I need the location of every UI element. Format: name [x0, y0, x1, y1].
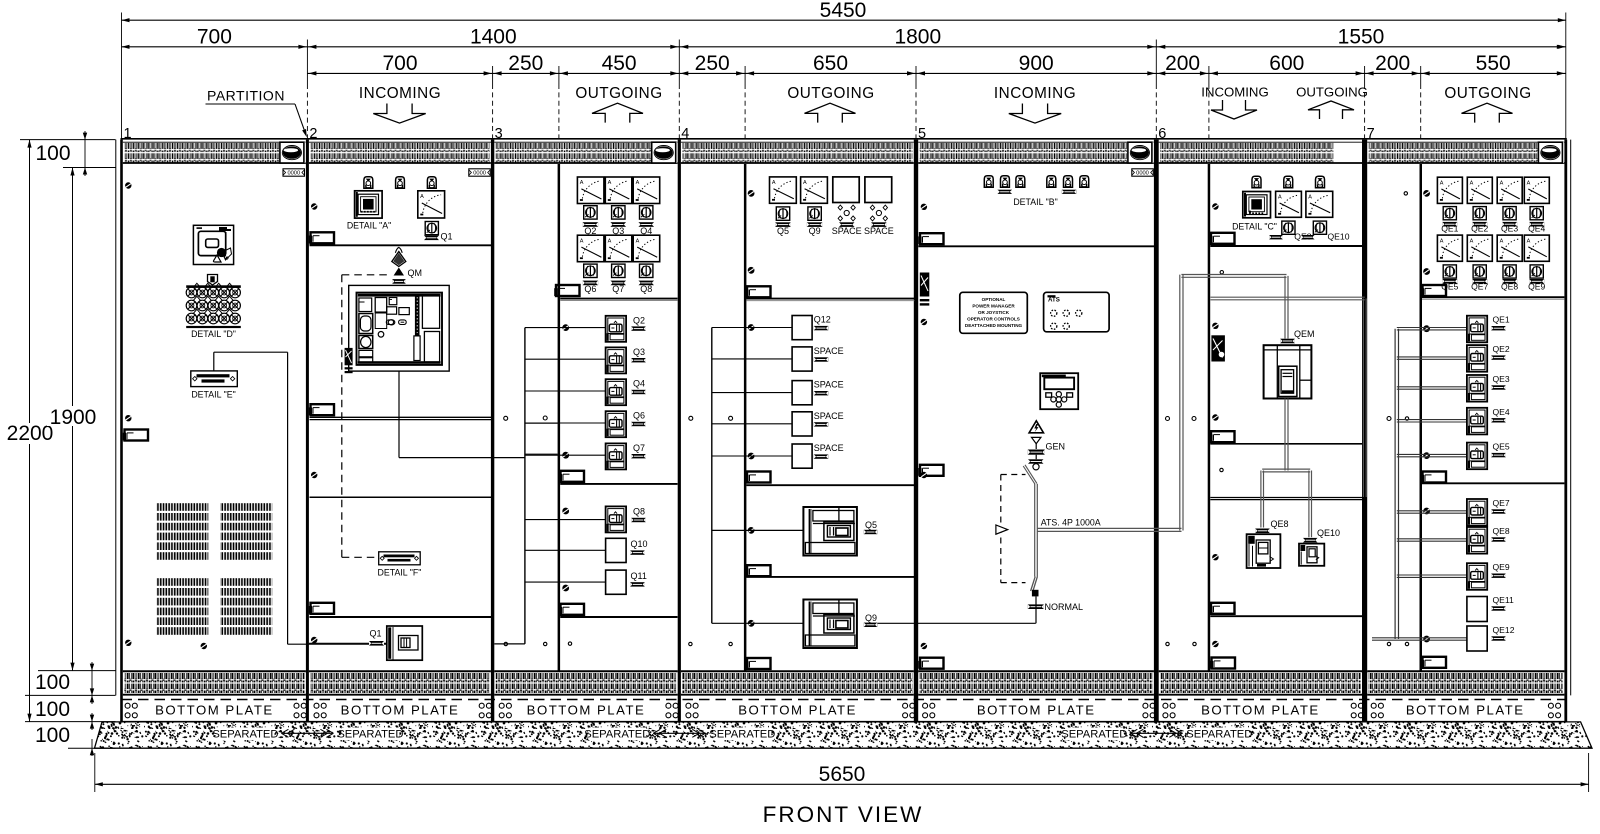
panel 2 handles [311, 232, 335, 243]
svg-text:Q8: Q8 [640, 284, 652, 294]
svg-text:1900: 1900 [50, 406, 97, 429]
svg-text:ATS. 4P 1000A: ATS. 4P 1000A [1041, 517, 1101, 527]
terminal QEM [1280, 339, 1295, 344]
wire feeder Q12 row 1 [712, 327, 792, 329]
breaker QE3 [1467, 375, 1487, 402]
wire feeder QE1 [1397, 327, 1467, 329]
top ventilation louvre section 5 [918, 141, 1154, 143]
panel 5 handles [920, 233, 944, 244]
breaker Q2 [606, 316, 627, 342]
panel wall between section 5 and 6 [1154, 140, 1159, 722]
label SEPARATED right [713, 728, 771, 741]
svg-text:Q7: Q7 [612, 284, 624, 294]
dimension 2200 left [29, 140, 31, 722]
moulded case breaker Q5 [803, 507, 857, 556]
ATS controller unit [349, 285, 450, 371]
svg-text:A: A [580, 180, 584, 186]
wire feeder QE7 [1397, 510, 1467, 512]
detail C multimeter [1243, 192, 1271, 218]
breaker QE9 [1467, 563, 1487, 590]
optional power manager nameplate [960, 292, 1028, 333]
svg-text:A: A [1278, 195, 1282, 201]
separation arrows [1130, 732, 1182, 734]
svg-text:Q12: Q12 [814, 315, 831, 325]
panel 4 door dividers [746, 298, 914, 300]
wire feeder Q3 [525, 358, 606, 360]
svg-text:A: A [636, 180, 640, 186]
svg-text:QE3: QE3 [1501, 223, 1518, 233]
panel 7 ammeter row 1 [1437, 177, 1462, 203]
breaker QE10 [1299, 544, 1324, 566]
wire feeder SPACE row 3 [712, 392, 792, 394]
svg-text:SEPARATED: SEPARATED [212, 729, 278, 741]
GEN lower terminal [1028, 459, 1044, 463]
terminal Q1 [424, 236, 439, 241]
panel 7 screws [1423, 190, 1430, 197]
motor drive symbol [996, 525, 1008, 534]
top ventilation louvre section 6 [1159, 141, 1362, 143]
wire feeder Q8 [525, 519, 606, 521]
svg-text:DETAIL "D": DETAIL "D" [191, 329, 236, 339]
wire feeder QE9 [1397, 574, 1467, 576]
space breaker Q12 row 1 [792, 316, 812, 340]
cable gland crest [208, 275, 218, 286]
panel 4 screws [748, 190, 755, 197]
panel 5 door divider [918, 245, 1154, 247]
svg-text:Q3: Q3 [633, 347, 645, 357]
svg-text:QEM: QEM [1294, 329, 1315, 339]
wire drop QE8 [1260, 471, 1262, 528]
svg-text:Q7: Q7 [633, 443, 645, 453]
svg-text:Q4: Q4 [640, 226, 652, 236]
svg-text:QE7: QE7 [1493, 498, 1510, 508]
breaker Q4 [606, 379, 627, 405]
svg-text:Q5: Q5 [865, 520, 877, 530]
svg-text:A: A [1470, 180, 1474, 186]
svg-text:OR JOYSTICK: OR JOYSTICK [978, 310, 1010, 315]
svg-text:A: A [1527, 180, 1531, 186]
panel 2 gland box [345, 348, 353, 365]
panel 2 screws [311, 203, 317, 209]
panel 5 gland box [920, 273, 930, 297]
svg-text:Q6: Q6 [584, 284, 596, 294]
rotary switch QE10 top [1313, 221, 1326, 234]
panel 4 feeder bus [711, 328, 713, 624]
dashed link GEN side [1001, 474, 1026, 476]
svg-text:BOTTOM PLATE: BOTTOM PLATE [977, 703, 1096, 718]
sub-divider wall in section 6 [1208, 164, 1211, 671]
label SEPARATED left [588, 728, 646, 741]
label SEPARATED right [1190, 728, 1248, 741]
panel 4 handles [747, 286, 771, 297]
dimension 100 base [68, 747, 116, 749]
dimension 5650 overall base [94, 753, 96, 792]
GEN terminal [1028, 450, 1045, 455]
panel wall between section 3 and 4 [678, 140, 681, 722]
breaker QE4 [1467, 408, 1487, 435]
rotary switches Q6 Q7 Q8 [584, 264, 597, 277]
svg-text:A: A [608, 238, 612, 244]
label SEPARATED right [341, 728, 399, 741]
svg-text:QE3: QE3 [1493, 374, 1510, 384]
panel 1 exhaust grilles [156, 503, 208, 511]
label SEPARATED left [1065, 728, 1123, 741]
terminal and label QE8 top [1269, 235, 1283, 239]
detail F nameplate [379, 552, 421, 565]
svg-text:200: 200 [1375, 52, 1410, 75]
switchboard outer frame [115, 140, 117, 696]
svg-text:Q11: Q11 [631, 571, 647, 581]
svg-text:SPACE: SPACE [832, 226, 862, 236]
terminals Q5 Q9 SPACE SPACE [775, 222, 791, 227]
panel 6 door dividers [1210, 245, 1362, 247]
wire feeder QE2 [1397, 356, 1467, 358]
sub-divider wall in section 4 [744, 164, 747, 671]
bottom ventilation louvre section 6 [1159, 670, 1362, 672]
panel wall 7 right edge [1564, 140, 1567, 722]
breaker QEM [1264, 345, 1312, 398]
svg-text:SPACE: SPACE [814, 411, 844, 421]
ATS control station box [1044, 292, 1110, 332]
top ventilation louvre section 2 [309, 141, 491, 143]
breaker QE5 [1467, 443, 1487, 470]
svg-text:DETAIL "B": DETAIL "B" [1013, 197, 1057, 207]
svg-text:BOTTOM PLATE: BOTTOM PLATE [1406, 703, 1525, 718]
svg-text:SEPARATED: SEPARATED [1186, 729, 1252, 741]
dimension extension lines [121, 13, 123, 140]
bottom ventilation louvre section 7 [1367, 670, 1564, 672]
svg-text:QE4: QE4 [1493, 407, 1510, 417]
rotary switches Q5 Q9 [776, 207, 789, 220]
separation arrows [281, 732, 333, 734]
bottom ventilation louvre section 2 [309, 670, 491, 672]
svg-text:2200: 2200 [7, 422, 54, 445]
svg-text:100: 100 [35, 142, 70, 165]
svg-text:QE9: QE9 [1493, 562, 1510, 572]
panel 3 handles [556, 285, 580, 296]
svg-text:SEPARATED: SEPARATED [1061, 729, 1127, 741]
svg-text:QE2: QE2 [1493, 344, 1510, 354]
space meter windows [833, 177, 859, 203]
svg-text:450: 450 [602, 52, 637, 75]
svg-text:A: A [803, 180, 807, 186]
dimension 5450 overall width [122, 19, 1566, 21]
svg-text:QE5: QE5 [1493, 442, 1510, 452]
lamp QM [392, 252, 406, 267]
svg-text:A: A [636, 238, 640, 244]
svg-text:100: 100 [35, 724, 70, 747]
label SEPARATED left [216, 728, 274, 741]
dimension 100 bottom plate [25, 721, 116, 723]
svg-text:700: 700 [382, 52, 417, 75]
svg-text:INCOMING: INCOMING [994, 85, 1076, 102]
wire ATS feed riser [1179, 275, 1181, 531]
panel 6 screws [1212, 203, 1218, 209]
wire feeder SPACE row 2 [712, 358, 792, 360]
panel 5 lamp terminals [998, 190, 1013, 194]
svg-text:Q9: Q9 [865, 613, 877, 623]
top ventilation louvre section 7 [1367, 141, 1564, 143]
panel 3 screws [562, 324, 569, 331]
svg-text:QE8: QE8 [1493, 526, 1510, 536]
svg-text:1400: 1400 [470, 26, 517, 49]
svg-text:DETAIL "F": DETAIL "F" [378, 568, 422, 578]
wire feeder QE3 [1397, 386, 1467, 388]
breaker Q8 [606, 506, 627, 532]
svg-text:SEPARATED: SEPARATED [337, 729, 403, 741]
wire normal to Q9 [1035, 596, 1037, 623]
svg-text:Q10: Q10 [631, 539, 648, 549]
wire feeder Q11 [525, 581, 606, 583]
svg-text:Q4: Q4 [633, 379, 645, 389]
dimension 100 bottom vent [38, 670, 116, 672]
svg-text:QE5: QE5 [1441, 281, 1458, 291]
svg-text:OUTGOING: OUTGOING [1296, 85, 1368, 100]
svg-text:250: 250 [508, 52, 543, 75]
terminals QE5 QE7 QE8 QE9 [1442, 279, 1457, 284]
panel 6 handles [1211, 233, 1235, 244]
svg-text:QE10: QE10 [1328, 231, 1350, 241]
svg-text:100: 100 [35, 671, 70, 694]
svg-text:200: 200 [1165, 52, 1200, 75]
bottom ventilation louvre section 1 [123, 670, 306, 672]
svg-text:Q1: Q1 [370, 629, 382, 639]
space breaker Q11 [606, 570, 627, 594]
svg-text:FRONT VIEW: FRONT VIEW [763, 802, 924, 827]
svg-text:100: 100 [35, 698, 70, 721]
space breaker QE11 [1467, 597, 1487, 622]
detail A multimeter [355, 191, 383, 218]
detail F dashed boundary [342, 274, 391, 276]
panel 2 door divider [310, 244, 492, 246]
svg-text:A: A [772, 180, 776, 186]
svg-text:OUTGOING: OUTGOING [787, 85, 874, 102]
panel 3 small dots [504, 416, 508, 420]
svg-text:DETAIL "A": DETAIL "A" [347, 221, 391, 231]
svg-text:Q2: Q2 [633, 315, 645, 325]
svg-text:SPACE: SPACE [864, 226, 894, 236]
svg-text:QE4: QE4 [1528, 223, 1545, 233]
wire drop QE10 [1308, 471, 1310, 538]
panel 4 cable-way dots [689, 416, 693, 420]
svg-text:OPTIONAL: OPTIONAL [982, 297, 1006, 302]
wire feeder QE4 [1397, 419, 1467, 421]
panel 7 handles [1423, 285, 1447, 296]
panel 5 tag 0000 [1132, 169, 1154, 176]
wire QEM output [1284, 399, 1286, 471]
svg-text:SEPARATED: SEPARATED [584, 729, 650, 741]
rotary switch Q1 [425, 222, 438, 235]
svg-text:OPERATOR CONTROLS: OPERATOR CONTROLS [967, 317, 1020, 322]
wire feeder SPACE row 5 [712, 455, 792, 457]
space selector dots [844, 210, 849, 215]
svg-text:QE8: QE8 [1501, 281, 1518, 291]
svg-text:BOTTOM PLATE: BOTTOM PLATE [738, 703, 857, 718]
moulded case breaker Q9 [803, 600, 857, 649]
space breaker Q10 [606, 538, 627, 562]
svg-text:NORMAL: NORMAL [1045, 602, 1084, 612]
svg-text:QE1: QE1 [1441, 223, 1458, 233]
ATS switch blade [1023, 466, 1035, 484]
space breaker SPACE row 4 [792, 412, 812, 436]
wire feeder Q9 breaker [712, 622, 804, 624]
svg-text:A: A [1308, 195, 1312, 201]
ATS output busbar [1037, 527, 1181, 529]
svg-text:Q1: Q1 [441, 232, 453, 242]
wire Q9 to ATS normal [878, 622, 1036, 624]
rotary switch QE8 top [1282, 221, 1295, 234]
panel 2 door dividers [310, 416, 492, 418]
svg-text:QE1: QE1 [1493, 315, 1510, 325]
svg-text:DETAIL "C": DETAIL "C" [1232, 222, 1277, 232]
svg-text:600: 600 [1269, 52, 1304, 75]
svg-text:QE11: QE11 [1493, 595, 1515, 605]
panel 6 indicator lamps [1252, 176, 1261, 187]
breaker Q6 [606, 411, 627, 437]
top ventilation louvre section 4 [681, 141, 914, 143]
svg-text:A: A [1500, 238, 1504, 244]
panel 1 door screws [125, 182, 131, 188]
wire feeder Q6 [525, 422, 606, 424]
svg-text:QE12: QE12 [1493, 625, 1515, 635]
top ventilation louvre section 3 [494, 141, 677, 143]
svg-text:Q6: Q6 [633, 411, 645, 421]
panel wall between section 6 and 7 [1362, 140, 1367, 722]
terminals Q2 Q3 Q4 [583, 222, 599, 227]
breaker Q1 [309, 642, 387, 644]
svg-text:A: A [580, 238, 584, 244]
svg-text:A: A [1440, 238, 1444, 244]
breaker QE1 [1467, 316, 1487, 343]
svg-text:SPACE: SPACE [814, 443, 844, 453]
svg-text:POWER MANAGER: POWER MANAGER [972, 303, 1015, 308]
wire feeder Q2 [525, 327, 606, 329]
panel 1 bottom screws [201, 643, 207, 649]
svg-text:900: 900 [1019, 52, 1054, 75]
breaker Q3 [606, 347, 627, 373]
wire feeder Q5 breaker [712, 529, 804, 531]
detail D monitor box [193, 225, 233, 264]
sub-divider wall in section 3 [558, 164, 561, 671]
panel 7 ammeter row 2 [1437, 235, 1462, 261]
svg-text:0000: 0000 [287, 171, 300, 177]
space breaker SPACE row 3 [792, 381, 812, 405]
wire upper distribution [1211, 296, 1365, 298]
bottom plate dashed line [122, 699, 1566, 701]
svg-text:Q9: Q9 [809, 226, 821, 236]
panel 5 screws [921, 204, 927, 210]
label NORMAL [1028, 604, 1044, 609]
panel 6 ammeters [1276, 191, 1302, 217]
rotary switches Q2 Q3 Q4 [584, 206, 597, 219]
panel 3 door dividers [560, 298, 677, 300]
svg-text:QE9: QE9 [1528, 281, 1545, 291]
GEN selector [1032, 437, 1041, 443]
breaker QE8 [1467, 527, 1487, 554]
svg-text:A: A [608, 180, 612, 186]
panel wall between section 4 and 5 [914, 140, 918, 722]
terminals QE1-QE4 [1442, 222, 1457, 227]
power meter display [1040, 373, 1078, 409]
breaker QE7 [1467, 499, 1487, 526]
svg-text:QE8: QE8 [1271, 519, 1289, 529]
svg-text:1550: 1550 [1338, 26, 1385, 49]
panel 5 indicator lamps detail B [984, 176, 993, 187]
svg-text:BOTTOM PLATE: BOTTOM PLATE [527, 703, 646, 718]
panel 2 indicator lamps [364, 177, 373, 188]
svg-text:BOTTOM PLATE: BOTTOM PLATE [1201, 703, 1320, 718]
panel 2 tag 0000 panel1 side [283, 169, 305, 176]
wire detail E to Q1 [213, 352, 215, 371]
svg-text:A: A [1527, 238, 1531, 244]
bottom ventilation louvre section 3 [494, 670, 677, 672]
panel 3 wires cable-way [524, 328, 526, 644]
panel 7 small dots [1404, 192, 1407, 195]
panel 7 door dividers [1422, 296, 1564, 298]
panel 3 ammeter row 2 [577, 235, 604, 262]
svg-text:ATS: ATS [1048, 297, 1060, 304]
svg-text:Q8: Q8 [633, 507, 645, 517]
breaker QE2 [1467, 345, 1487, 372]
bottom ventilation louvre section 5 [918, 670, 1154, 672]
wire feeder Q4 [525, 390, 606, 392]
breaker Q7 [606, 443, 627, 469]
wire feeder Q7 [525, 454, 606, 456]
dimension row 700/250/450/250/650/900/200/600/200/550 [307, 72, 1565, 74]
detail E nameplate [191, 371, 238, 387]
bottom plate fixing holes [125, 703, 130, 708]
svg-text:700: 700 [197, 26, 232, 49]
svg-text:PARTITION: PARTITION [207, 88, 285, 104]
svg-text:SPACE: SPACE [814, 346, 844, 356]
svg-text:SPACE: SPACE [814, 380, 844, 390]
ATS normal contact [1032, 590, 1039, 597]
terminal QE8 [1255, 529, 1270, 534]
terminal and label QE10 top [1301, 235, 1315, 239]
svg-text:1800: 1800 [894, 26, 941, 49]
svg-text:INCOMING: INCOMING [1201, 85, 1268, 100]
wire feeder Q10 [525, 549, 606, 551]
panel 4 ammeters Q5 Q9 [770, 177, 797, 203]
svg-text:Q3: Q3 [612, 226, 624, 236]
panel 6 cable-way dots [1220, 271, 1223, 274]
wire feeder QE5 [1397, 453, 1467, 455]
dimension 100 top-left [20, 139, 116, 141]
sub-divider wall in section 7 [1420, 164, 1423, 671]
svg-text:QE10: QE10 [1317, 528, 1340, 538]
svg-text:BOTTOM PLATE: BOTTOM PLATE [155, 703, 274, 718]
svg-text:BOTTOM PLATE: BOTTOM PLATE [341, 703, 460, 718]
terminals Q6 Q7 Q8 [583, 281, 599, 286]
svg-text:QM: QM [408, 268, 423, 278]
generator warning triangle [1029, 421, 1043, 433]
svg-text:INCOMING: INCOMING [359, 85, 441, 102]
wire feeder SPACE row 4 [712, 423, 792, 425]
panel 7 feeder bus [1394, 329, 1396, 639]
rotary switches QE5 QE7 QE8 QE9 [1443, 265, 1456, 278]
wire feeder QE8 [1397, 538, 1467, 540]
svg-text:DETAIL "E": DETAIL "E" [191, 390, 235, 400]
panel wall between section 2 and 3 [491, 140, 494, 722]
space breaker SPACE row 2 [792, 347, 812, 371]
top ventilation louvre section 1 [123, 141, 306, 143]
wire ATS to panel 3 [398, 371, 400, 458]
svg-text:0000: 0000 [473, 171, 486, 177]
svg-text:OUTGOING: OUTGOING [575, 85, 662, 102]
svg-text:OUTGOING: OUTGOING [1444, 85, 1531, 102]
svg-text:GEN: GEN [1046, 441, 1066, 451]
svg-text:A: A [1470, 238, 1474, 244]
